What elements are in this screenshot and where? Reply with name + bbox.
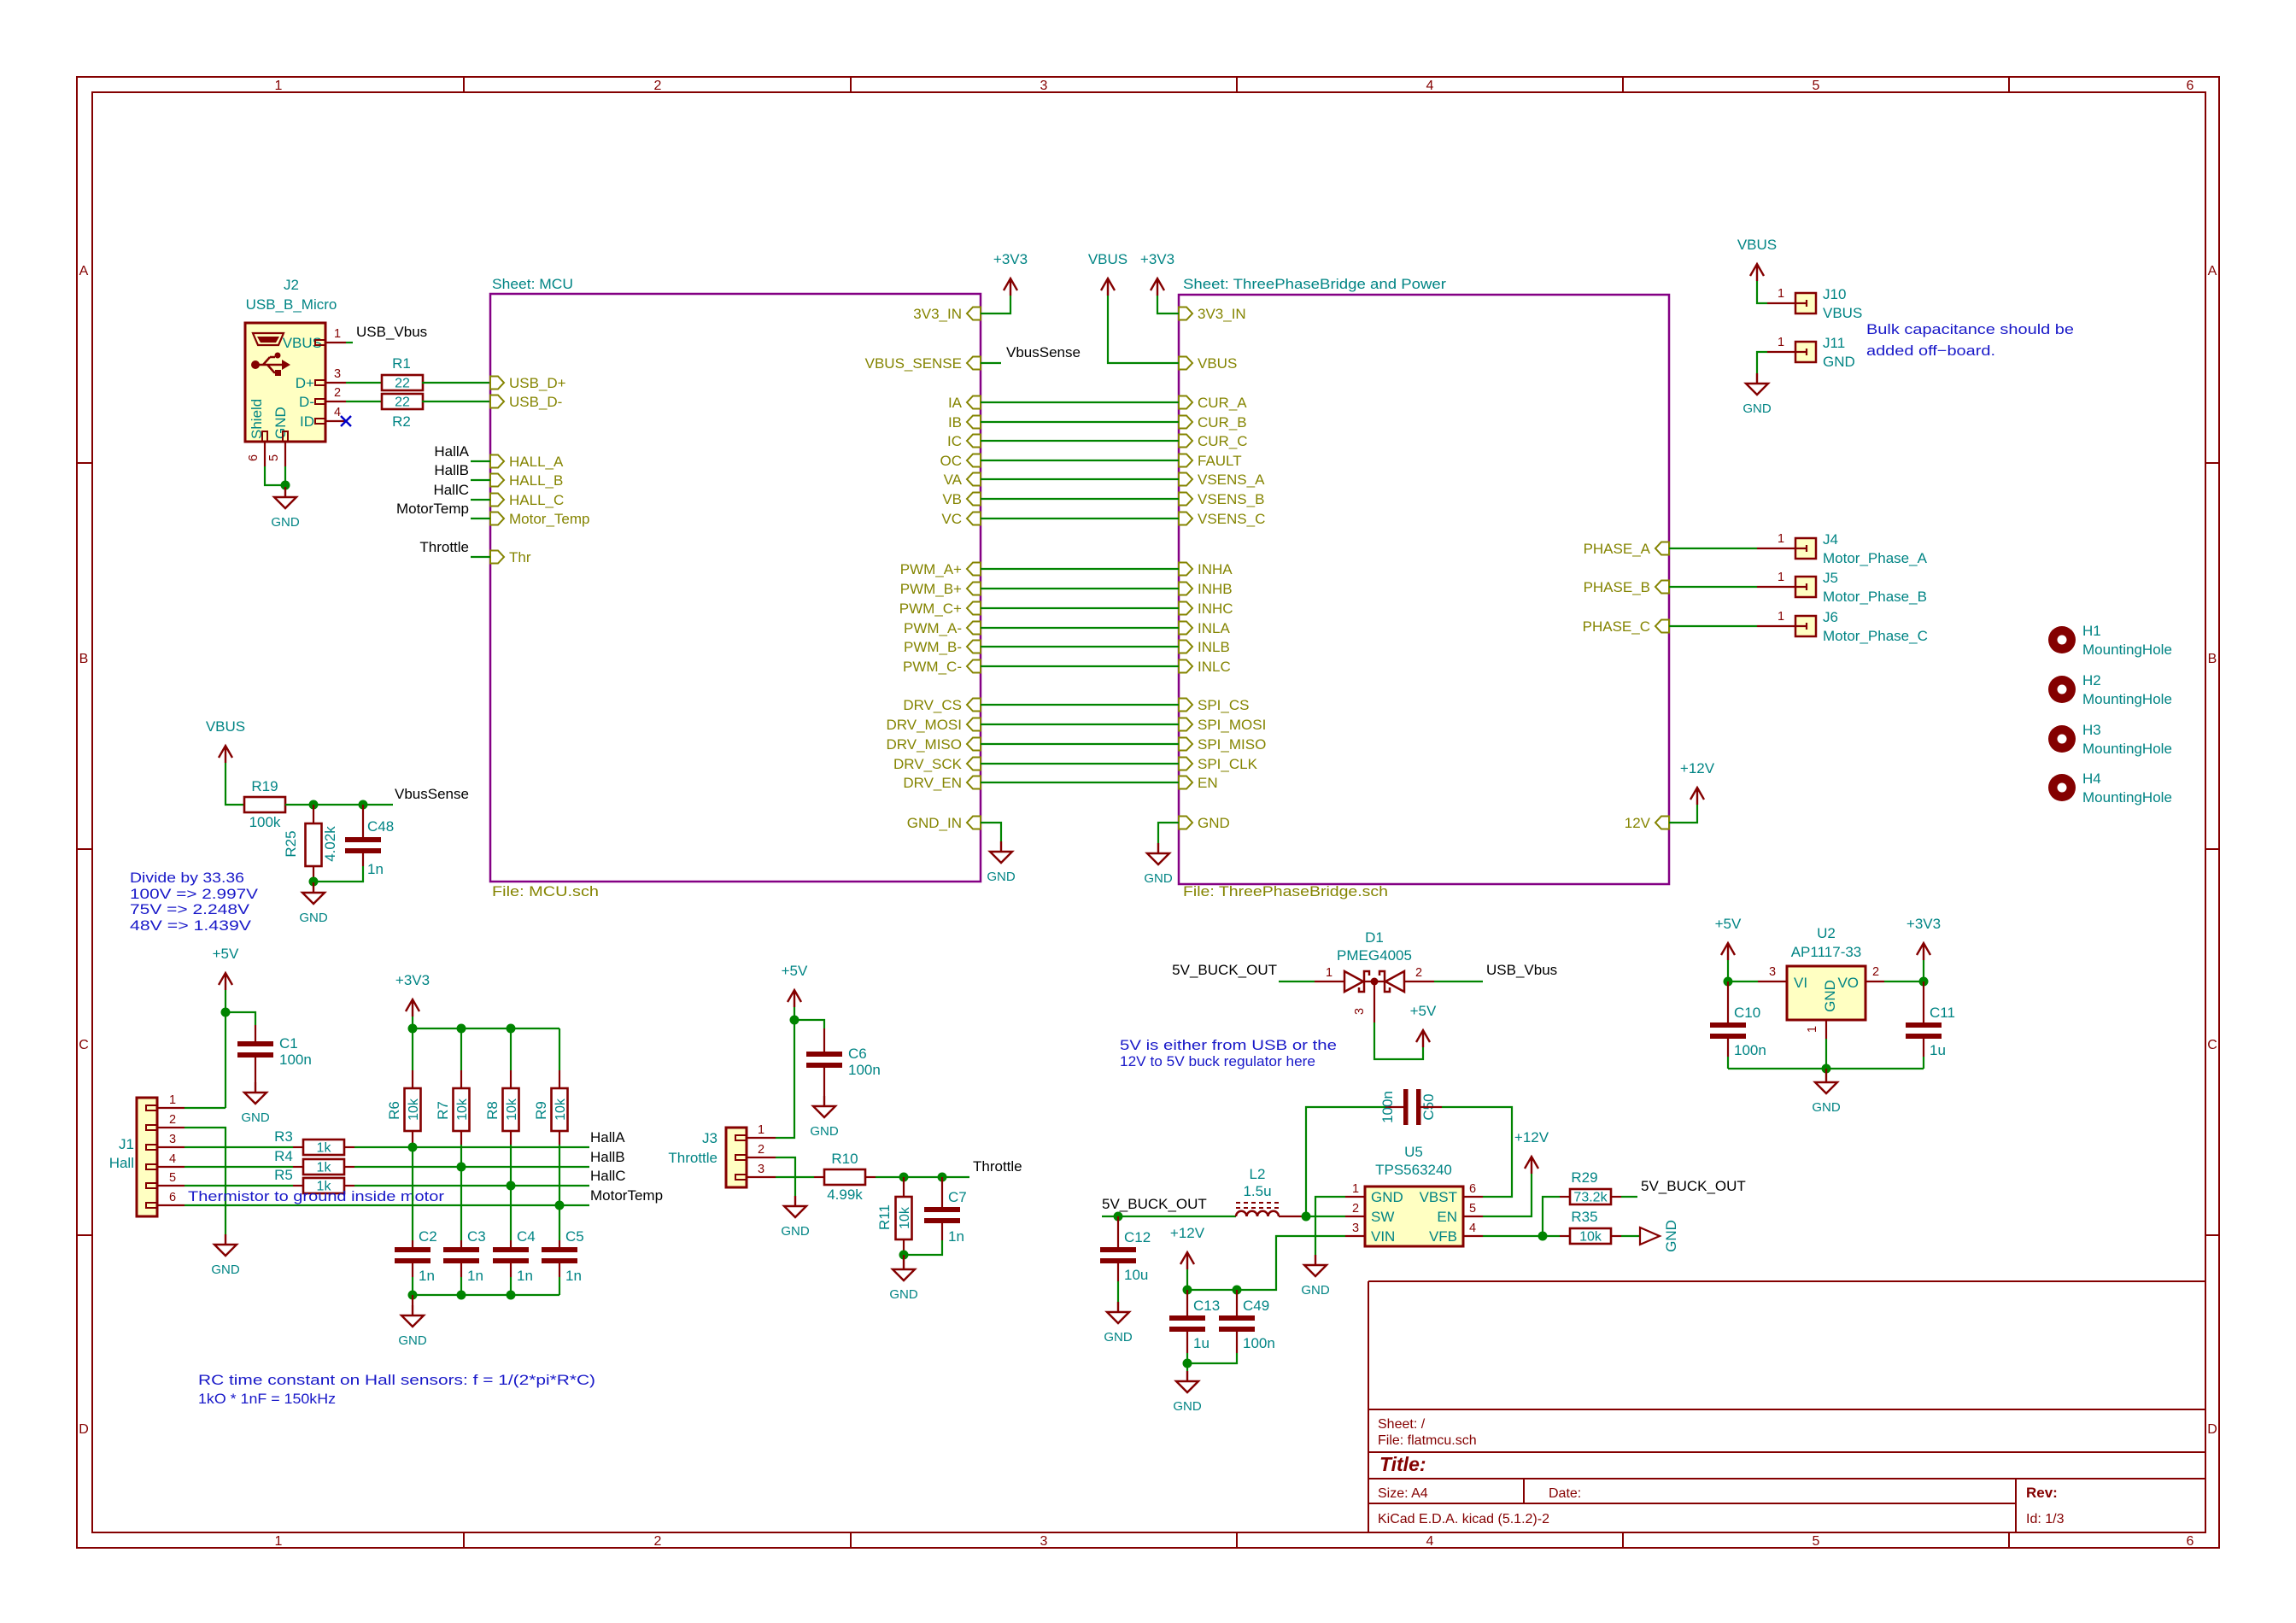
- svg-text:GND: GND: [1663, 1220, 1679, 1252]
- svg-text:6: 6: [247, 454, 261, 461]
- wire J11 to ground: [1757, 352, 1767, 373]
- wire J1 pin2 to gnd: [184, 1128, 225, 1234]
- svg-text:HallB: HallB: [434, 462, 469, 478]
- wire +5V down to J1 pin1: [225, 990, 226, 1108]
- wire TPB GND to ground: [1158, 823, 1179, 843]
- wire R6 to row: [412, 1145, 413, 1240]
- svg-text:VSENS_C: VSENS_C: [1198, 511, 1265, 527]
- svg-text:C48: C48: [367, 818, 394, 835]
- wire MCU 3V3_IN to +3V3: [981, 296, 1010, 313]
- svg-text:Sheet: ThreePhaseBridge and Po: Sheet: ThreePhaseBridge and Power: [1183, 276, 1446, 292]
- svg-text:HALL_C: HALL_C: [509, 492, 564, 508]
- svg-text:HallB: HallB: [590, 1149, 625, 1165]
- svg-text:12V to 5V buck regulator here: 12V to 5V buck regulator here: [1120, 1053, 1315, 1069]
- svg-text:Hall: Hall: [109, 1155, 134, 1171]
- sheet pin VBUS on ThreePhaseBridge: [1179, 357, 1192, 370]
- diode D1 right half: [1379, 971, 1390, 992]
- svg-text:1n: 1n: [367, 861, 384, 877]
- svg-text:VSENS_A: VSENS_A: [1198, 472, 1265, 488]
- svg-text:MountingHole: MountingHole: [2082, 642, 2172, 658]
- sheet pin DRV_MISO on MCU: [967, 738, 981, 751]
- junction D1 common: [1371, 978, 1379, 986]
- svg-text:HallA: HallA: [434, 443, 469, 460]
- svg-text:3: 3: [1352, 1222, 1359, 1235]
- junctions 3V3 bus: [408, 1024, 418, 1034]
- svg-text:ID: ID: [300, 413, 314, 430]
- sheet pin 3V3_IN on MCU: [967, 308, 981, 320]
- svg-text:100k: 100k: [249, 814, 281, 830]
- sheet pin VB on MCU: [967, 493, 981, 506]
- svg-text:2: 2: [654, 79, 662, 93]
- svg-text:J6: J6: [1823, 609, 1838, 625]
- svg-text:1: 1: [334, 327, 341, 341]
- svg-text:2: 2: [1872, 965, 1879, 979]
- svg-text:SPI_CLK: SPI_CLK: [1198, 756, 1258, 772]
- junction R19-C48: [359, 800, 368, 810]
- diode D1 left half: [1344, 971, 1363, 992]
- wire R10 to Throttle: [876, 1176, 969, 1178]
- svg-text:10k: 10k: [1579, 1230, 1602, 1245]
- sheet pin PWM_B+ on MCU: [967, 583, 981, 595]
- svg-text:C4: C4: [517, 1228, 536, 1245]
- mounting hole H4: [2048, 774, 2076, 801]
- svg-text:2: 2: [334, 386, 341, 400]
- connector J11 pin stub: [1767, 351, 1795, 353]
- sheet pin INHA on ThreePhaseBridge: [1179, 563, 1192, 576]
- wire PHASE to J6: [1669, 625, 1757, 627]
- sheet pin HALL_C on MCU: [490, 494, 504, 507]
- connector J2 body: [245, 323, 325, 442]
- diode D1 pin2 stub: [1404, 981, 1434, 982]
- svg-text:MountingHole: MountingHole: [2082, 789, 2172, 806]
- svg-text:J4: J4: [1823, 531, 1838, 548]
- svg-text:GND: GND: [1104, 1330, 1133, 1345]
- wire HallC row: [354, 1185, 589, 1186]
- svg-text:5: 5: [267, 454, 281, 461]
- svg-text:B: B: [79, 652, 89, 666]
- wire and label HallA at MCU input: [471, 460, 490, 462]
- svg-text:R4: R4: [274, 1148, 293, 1164]
- svg-text:4: 4: [169, 1152, 176, 1166]
- junction SW C50: [1302, 1212, 1311, 1222]
- svg-text:SPI_CS: SPI_CS: [1198, 697, 1249, 713]
- sheet pin HALL_B on MCU: [490, 474, 504, 487]
- svg-text:R3: R3: [274, 1128, 293, 1145]
- svg-text:GND: GND: [398, 1333, 427, 1348]
- svg-text:USB_D-: USB_D-: [509, 394, 562, 410]
- junction R25 gnd: [309, 877, 319, 887]
- junction +5V C10: [1724, 977, 1733, 987]
- svg-text:4: 4: [1469, 1222, 1476, 1235]
- svg-text:1: 1: [1326, 966, 1332, 980]
- svg-text:USB_Vbus: USB_Vbus: [356, 324, 427, 340]
- svg-text:INLA: INLA: [1198, 620, 1230, 636]
- junction R11: [899, 1173, 909, 1182]
- svg-text:3: 3: [1040, 1534, 1048, 1549]
- connector J3 pin 3: [735, 1175, 747, 1180]
- svg-text:R8: R8: [484, 1101, 501, 1120]
- svg-text:CUR_B: CUR_B: [1198, 414, 1247, 431]
- sheet pin DRV_CS on MCU: [967, 699, 981, 712]
- svg-text:HallC: HallC: [590, 1168, 626, 1184]
- sheet ThreePhaseBridge box: [1179, 295, 1669, 884]
- wire MotorTemp row: [184, 1204, 589, 1206]
- svg-text:EN: EN: [1198, 775, 1218, 791]
- sheet pin CUR_C on ThreePhaseBridge: [1179, 435, 1192, 448]
- wire U2 VO to +3V3: [1884, 981, 1924, 982]
- svg-text:Size: A4: Size: A4: [1378, 1486, 1428, 1501]
- svg-text:C: C: [2207, 1038, 2217, 1052]
- svg-text:C10: C10: [1734, 1005, 1760, 1021]
- capacitor C11: [1923, 981, 1924, 1022]
- sheet MCU box: [490, 294, 981, 882]
- connector J2 usb icon: [253, 333, 284, 345]
- wire R1 to sheet: [422, 382, 490, 384]
- svg-text:PHASE_B: PHASE_B: [1584, 579, 1650, 595]
- svg-text:+12V: +12V: [1680, 760, 1715, 776]
- wire PWM_C--INLC: [981, 665, 1179, 667]
- svg-text:1: 1: [1778, 532, 1784, 546]
- svg-text:CUR_C: CUR_C: [1198, 433, 1248, 449]
- svg-text:SPI_MISO: SPI_MISO: [1198, 736, 1266, 753]
- svg-text:5: 5: [169, 1171, 176, 1185]
- sheet pin PWM_A- on MCU: [967, 622, 981, 635]
- wire DRV_CS-SPI_CS: [981, 704, 1179, 706]
- svg-text:4: 4: [1426, 79, 1434, 93]
- wire R19 to VbusSense: [285, 804, 393, 806]
- wire R9 to row: [559, 1145, 560, 1240]
- capacitor C1: [255, 1025, 256, 1041]
- svg-text:DRV_MOSI: DRV_MOSI: [887, 717, 963, 733]
- wire J1 pin1 to +5V: [184, 1107, 225, 1109]
- svg-text:1: 1: [169, 1093, 176, 1107]
- sheet pin PHASE_A on ThreePhaseBridge: [1655, 542, 1669, 555]
- power VBUS at R19: [219, 746, 232, 763]
- svg-text:+3V3: +3V3: [395, 972, 430, 988]
- sheet pin USB_D+ on MCU: [490, 377, 504, 390]
- wire L2 to SW: [1279, 1216, 1306, 1217]
- connector J3 body: [726, 1128, 747, 1187]
- svg-text:INHC: INHC: [1198, 601, 1233, 617]
- svg-text:1n: 1n: [948, 1228, 964, 1245]
- svg-text:R1: R1: [392, 355, 411, 372]
- capacitor C5: [559, 1240, 560, 1247]
- svg-text:1: 1: [1806, 1026, 1819, 1033]
- svg-text:added off−board.: added off−board.: [1866, 343, 1995, 359]
- svg-text:3: 3: [169, 1133, 176, 1146]
- connector J1 pin 2: [146, 1125, 157, 1130]
- svg-text:12V: 12V: [1625, 815, 1651, 831]
- wire IC-CUR_C: [981, 440, 1179, 442]
- svg-text:D: D: [2207, 1422, 2217, 1437]
- svg-text:PWM_A-: PWM_A-: [904, 620, 962, 636]
- svg-text:+5V: +5V: [1715, 916, 1742, 932]
- svg-text:USB_D+: USB_D+: [509, 375, 566, 391]
- junction R9: [555, 1201, 565, 1210]
- svg-text:+5V: +5V: [1410, 1003, 1437, 1019]
- svg-text:1.5u: 1.5u: [1243, 1183, 1271, 1199]
- sheet pin SPI_CLK on ThreePhaseBridge: [1179, 758, 1192, 770]
- wire IA-CUR_A: [981, 401, 1179, 403]
- svg-text:Thermistor to ground inside mo: Thermistor to ground inside motor: [188, 1188, 444, 1204]
- svg-text:VC: VC: [941, 511, 962, 527]
- wire and label MotorTemp at MCU input: [471, 518, 490, 519]
- svg-text:A: A: [2208, 264, 2217, 278]
- label VbusSense mid: [981, 362, 1001, 364]
- power VBUS at J10: [1750, 264, 1764, 281]
- capacitor C7: [941, 1177, 943, 1207]
- svg-text:C7: C7: [948, 1189, 967, 1205]
- connector J1 body: [137, 1098, 157, 1216]
- svg-text:Motor_Phase_B: Motor_Phase_B: [1823, 589, 1927, 605]
- wire U5 VIN to 12V bus: [1187, 1236, 1345, 1290]
- svg-text:GND: GND: [1144, 871, 1173, 886]
- svg-text:+12V: +12V: [1170, 1225, 1205, 1241]
- capacitor C13: [1186, 1290, 1188, 1315]
- ground symbol C12: [1107, 1302, 1129, 1323]
- svg-text:4: 4: [1426, 1534, 1434, 1549]
- svg-text:1n: 1n: [467, 1268, 483, 1284]
- svg-text:PWM_B-: PWM_B-: [904, 639, 962, 655]
- connector J5: [1795, 577, 1816, 597]
- wire to +3V3 arrow: [1923, 960, 1924, 981]
- resistor R25: [313, 805, 314, 823]
- svg-text:3: 3: [1769, 965, 1776, 979]
- svg-text:EN: EN: [1437, 1209, 1457, 1225]
- no-connect flag on J2 ID pin: [341, 416, 351, 426]
- svg-text:1k: 1k: [317, 1161, 332, 1175]
- svg-text:GND: GND: [1822, 980, 1838, 1012]
- svg-text:1k: 1k: [317, 1141, 332, 1156]
- svg-text:5: 5: [1469, 1202, 1476, 1216]
- svg-text:D-: D-: [299, 394, 314, 410]
- wire R2 to sheet: [422, 401, 490, 402]
- power +5V at C1: [219, 973, 232, 990]
- regulator U5 body: [1365, 1186, 1463, 1246]
- junction R7: [457, 1163, 466, 1172]
- junction +5V C6: [790, 1016, 799, 1025]
- svg-text:VBUS: VBUS: [206, 718, 245, 735]
- svg-text:C13: C13: [1193, 1298, 1220, 1314]
- svg-text:1: 1: [1352, 1182, 1359, 1196]
- svg-text:3: 3: [1353, 1008, 1367, 1015]
- svg-text:VbusSense: VbusSense: [1006, 344, 1081, 360]
- svg-text:GND: GND: [810, 1124, 839, 1139]
- svg-text:6: 6: [169, 1191, 176, 1204]
- wire to C6: [794, 1020, 824, 1028]
- svg-text:3V3_IN: 3V3_IN: [1198, 306, 1246, 322]
- svg-text:KiCad E.D.A. kicad (5.1.2)-2: KiCad E.D.A. kicad (5.1.2)-2: [1378, 1512, 1549, 1526]
- capacitor C50: [1385, 1106, 1403, 1108]
- resistor R4: [184, 1166, 293, 1168]
- svg-text:1: 1: [1778, 287, 1784, 301]
- wire +5V to U2 VI: [1728, 960, 1758, 981]
- wire U5 GND pin to ground: [1315, 1197, 1345, 1255]
- svg-text:H4: H4: [2082, 770, 2101, 787]
- svg-text:GND: GND: [272, 407, 289, 439]
- svg-text:GND: GND: [1823, 354, 1855, 370]
- resistor R5: [184, 1185, 293, 1186]
- svg-text:VbusSense: VbusSense: [395, 786, 469, 802]
- sheet pin OC on MCU: [967, 454, 981, 467]
- svg-text:10u: 10u: [1124, 1267, 1148, 1283]
- svg-text:+5V: +5V: [213, 946, 239, 962]
- capacitor C4: [510, 1240, 512, 1247]
- svg-text:1n: 1n: [565, 1268, 582, 1284]
- svg-text:VBUS: VBUS: [1823, 305, 1862, 321]
- svg-text:INHA: INHA: [1198, 561, 1233, 577]
- svg-text:C6: C6: [848, 1046, 867, 1062]
- svg-text:GND: GND: [211, 1263, 240, 1277]
- svg-text:CUR_A: CUR_A: [1198, 395, 1247, 411]
- svg-text:2: 2: [654, 1534, 662, 1549]
- wire cap gnd bus: [413, 1294, 559, 1296]
- power +5V at U2: [1721, 943, 1735, 960]
- svg-text:VSENS_B: VSENS_B: [1198, 491, 1264, 507]
- svg-text:DRV_MISO: DRV_MISO: [887, 736, 963, 753]
- svg-text:Motor_Temp: Motor_Temp: [509, 511, 589, 527]
- svg-text:3V3_IN: 3V3_IN: [913, 306, 962, 322]
- svg-text:MotorTemp: MotorTemp: [396, 501, 469, 517]
- resistor R6: [412, 1028, 413, 1070]
- sheet pin SPI_MISO on ThreePhaseBridge: [1179, 738, 1192, 751]
- wire 5V_BUCK_OUT to D1: [1279, 981, 1315, 982]
- svg-text:Rev:: Rev:: [2026, 1485, 2058, 1501]
- svg-text:6: 6: [2187, 79, 2194, 93]
- svg-text:U2: U2: [1817, 925, 1836, 941]
- power +3V3 at U2: [1917, 943, 1930, 960]
- resistor R19: [244, 797, 285, 812]
- resistor R9: [559, 1028, 560, 1070]
- ground symbol J3 pin2: [784, 1196, 806, 1217]
- wire OC-FAULT: [981, 460, 1179, 461]
- svg-text:J11: J11: [1823, 335, 1845, 351]
- svg-text:TPS563240: TPS563240: [1375, 1162, 1452, 1178]
- connector J3 pin 1: [735, 1135, 747, 1140]
- wire VC-VSENS_C: [981, 518, 1179, 519]
- svg-text:1: 1: [1778, 336, 1784, 349]
- wire J2 shield+gnd: [265, 466, 285, 485]
- svg-text:48V => 1.439V: 48V => 1.439V: [130, 917, 252, 934]
- svg-text:HALL_A: HALL_A: [509, 454, 564, 470]
- connector J2 pin notches: [315, 340, 325, 345]
- svg-text:VBUS: VBUS: [1737, 237, 1777, 253]
- wire DRV_MISO-SPI_MISO: [981, 743, 1179, 745]
- svg-text:100V => 2.997V: 100V => 2.997V: [130, 886, 259, 902]
- regulator U2 gnd pin: [1825, 1020, 1827, 1039]
- sheet pin HALL_A on MCU: [490, 455, 504, 468]
- svg-text:Thr: Thr: [509, 549, 531, 565]
- wire PWM_B+-INHB: [981, 588, 1179, 589]
- svg-text:HallA: HallA: [590, 1129, 625, 1145]
- svg-text:GND: GND: [299, 911, 328, 925]
- wire DRV_EN-EN: [981, 782, 1179, 783]
- power +5V at J3: [788, 990, 801, 1007]
- svg-text:OC: OC: [940, 453, 963, 469]
- svg-text:IB: IB: [948, 414, 962, 431]
- junctions cap gnd bus: [408, 1291, 418, 1300]
- svg-text:5: 5: [1813, 1534, 1820, 1549]
- svg-text:R29: R29: [1571, 1169, 1597, 1186]
- sheet pin DRV_EN on MCU: [967, 776, 981, 789]
- svg-text:GND: GND: [889, 1287, 918, 1302]
- wire and label HallB at MCU input: [471, 479, 490, 481]
- svg-text:PMEG4005: PMEG4005: [1337, 947, 1412, 964]
- svg-text:U5: U5: [1404, 1144, 1423, 1160]
- sheet pin INHC on ThreePhaseBridge: [1179, 602, 1192, 615]
- wire U5 EN to +12V: [1483, 1174, 1532, 1216]
- svg-text:J2: J2: [284, 277, 299, 293]
- svg-text:GND: GND: [271, 515, 300, 530]
- ground symbol U5: [1304, 1255, 1327, 1276]
- sheet pin VSENS_B on ThreePhaseBridge: [1179, 493, 1192, 506]
- resistor R10: [776, 1176, 814, 1178]
- sheet pin CUR_B on ThreePhaseBridge: [1179, 416, 1192, 429]
- wire TPB 12V to +12V: [1669, 805, 1697, 823]
- wire TPB 3V3_IN to +3V3: [1157, 296, 1179, 313]
- svg-text:100n: 100n: [1379, 1091, 1396, 1123]
- connector J10 pin stub: [1767, 302, 1795, 304]
- svg-text:75V => 2.248V: 75V => 2.248V: [130, 901, 250, 917]
- svg-text:C5: C5: [565, 1228, 584, 1245]
- svg-text:6: 6: [2187, 1534, 2194, 1549]
- svg-text:R7: R7: [435, 1101, 451, 1120]
- junction VFB: [1538, 1232, 1548, 1241]
- regulator U2 body: [1787, 966, 1865, 1020]
- svg-text:+5V: +5V: [782, 963, 808, 979]
- wire R8 to row: [510, 1145, 512, 1240]
- wire PHASE to J4: [1669, 548, 1757, 549]
- regulator U2 pin2 stub: [1865, 981, 1884, 982]
- capacitor C12: [1117, 1216, 1119, 1247]
- junction VIN C13: [1183, 1286, 1192, 1295]
- svg-text:FAULT: FAULT: [1198, 453, 1242, 469]
- svg-text:5V is either from USB or the: 5V is either from USB or the: [1120, 1037, 1337, 1053]
- wire PWM_B--INLB: [981, 646, 1179, 647]
- resistor R8: [510, 1028, 512, 1070]
- svg-text:L2: L2: [1250, 1166, 1266, 1182]
- svg-text:VO: VO: [1837, 975, 1859, 991]
- label USB_Vbus: [346, 342, 353, 343]
- svg-text:D+: D+: [296, 375, 314, 391]
- svg-text:INLC: INLC: [1198, 659, 1231, 675]
- wire +3V3 bus: [412, 1017, 413, 1028]
- junction C7: [938, 1173, 947, 1182]
- wire U5 VFB to divider: [1483, 1235, 1560, 1237]
- connector J1 pin 6: [146, 1203, 157, 1208]
- svg-text:HALL_B: HALL_B: [509, 472, 563, 489]
- svg-text:R2: R2: [392, 413, 411, 430]
- svg-text:1: 1: [758, 1123, 764, 1137]
- junction +5V C1: [221, 1008, 231, 1017]
- ground symbol J11: [1746, 373, 1768, 395]
- wire TPB VBUS to VBUS arrow: [1108, 296, 1179, 363]
- wire VBUS to J10: [1757, 281, 1767, 303]
- svg-text:VBUS: VBUS: [1088, 251, 1127, 267]
- wire PWM_C+-INHC: [981, 607, 1179, 609]
- wire DRV_MOSI-SPI_MOSI: [981, 724, 1179, 725]
- connector J10: [1795, 293, 1816, 313]
- power +12V right: [1690, 788, 1704, 805]
- svg-text:DRV_CS: DRV_CS: [903, 697, 962, 713]
- svg-text:R11: R11: [876, 1204, 893, 1230]
- sheet pin GND on ThreePhaseBridge: [1179, 817, 1192, 829]
- svg-text:IC: IC: [947, 433, 962, 449]
- svg-text:DRV_EN: DRV_EN: [903, 775, 962, 791]
- junction C13 gnd: [1183, 1359, 1192, 1368]
- svg-text:PWM_C+: PWM_C+: [899, 601, 962, 617]
- sheet pin VBUS_SENSE on MCU: [967, 357, 981, 370]
